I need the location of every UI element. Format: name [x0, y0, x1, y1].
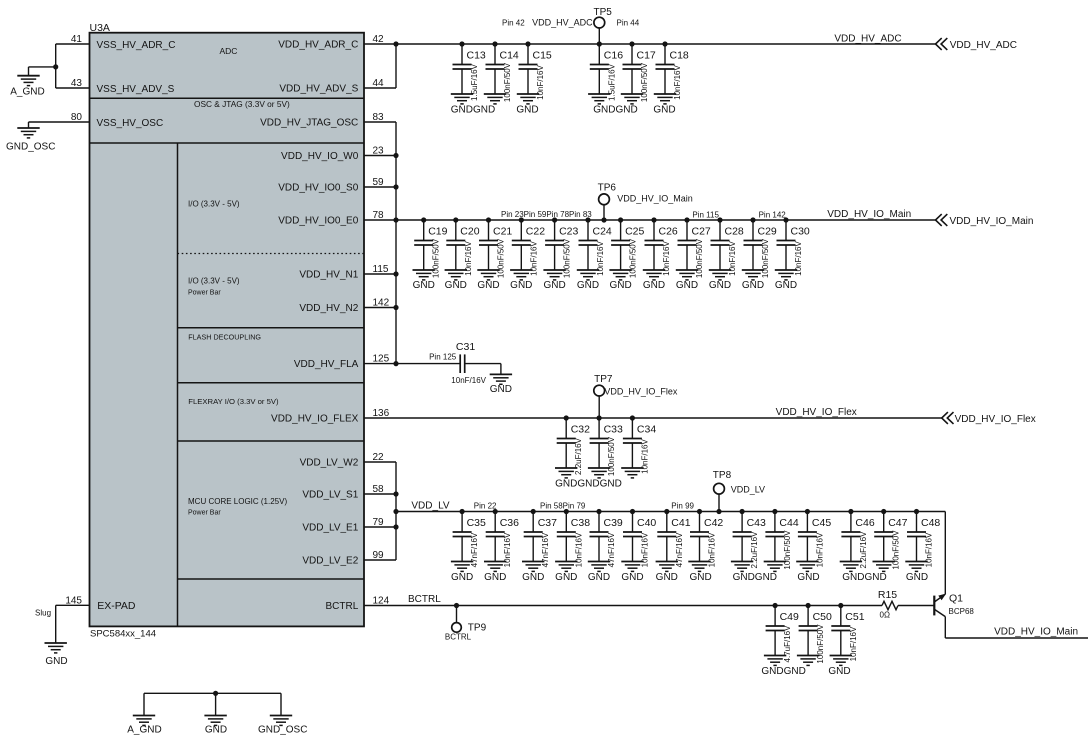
- svg-text:GND: GND: [828, 666, 850, 677]
- svg-text:U3A: U3A: [90, 22, 110, 34]
- capacitor C49: [764, 603, 799, 666]
- svg-text:100nF/50V: 100nF/50V: [761, 238, 770, 278]
- capacitor C26: [643, 217, 678, 280]
- svg-text:10nF/16V: 10nF/16V: [925, 532, 934, 567]
- svg-text:C14: C14: [500, 50, 519, 62]
- capacitor C23: [543, 217, 578, 280]
- transistor Q1: [934, 593, 974, 617]
- svg-text:10nF/16V: 10nF/16V: [641, 532, 650, 567]
- svg-text:C50: C50: [813, 611, 832, 623]
- svg-text:GND: GND: [205, 725, 227, 736]
- svg-text:GND: GND: [643, 280, 665, 291]
- svg-text:C46: C46: [855, 517, 874, 529]
- svg-text:A_GND: A_GND: [10, 86, 44, 97]
- svg-text:C23: C23: [559, 226, 578, 238]
- svg-text:VDD_HV_JTAG_OSC: VDD_HV_JTAG_OSC: [260, 118, 358, 129]
- node bus junctions: [393, 41, 398, 529]
- svg-text:10nF/16V: 10nF/16V: [815, 532, 824, 567]
- node terminal VDD_HV_ADC: [936, 38, 1017, 51]
- svg-text:GNDGND: GNDGND: [451, 105, 495, 116]
- svg-text:GND: GND: [45, 656, 67, 667]
- node TP5 label: [594, 7, 613, 18]
- node junction ground tie: [213, 691, 218, 696]
- capacitor C21: [477, 217, 512, 280]
- svg-text:Power Bar: Power Bar: [188, 510, 221, 517]
- ground GND_OSC (left): [6, 128, 55, 153]
- node pin 22 VDD_LV_W2: [300, 452, 384, 469]
- node net label VDD_HV_IO_Main: [827, 209, 911, 220]
- svg-text:VSS_HV_ADV_S: VSS_HV_ADV_S: [97, 84, 175, 95]
- node pin 136 VDD_HV_IO_FLEX: [271, 408, 390, 425]
- svg-text:GNDGND: GNDGND: [842, 572, 886, 583]
- node pin 23 VDD_HV_IO_W0: [281, 146, 384, 163]
- test point TP9: [452, 606, 462, 633]
- svg-text:Pin 58Pin 79: Pin 58Pin 79: [540, 502, 586, 511]
- svg-text:10nF/16V: 10nF/16V: [728, 240, 737, 275]
- svg-text:BCTRL: BCTRL: [326, 601, 359, 612]
- svg-text:VDD_HV_N2: VDD_HV_N2: [299, 303, 358, 314]
- svg-text:VDD_HV_IO_Main: VDD_HV_IO_Main: [827, 209, 911, 220]
- svg-text:GND: GND: [689, 572, 711, 583]
- svg-text:C25: C25: [625, 226, 644, 238]
- svg-text:C36: C36: [500, 517, 519, 529]
- wire net VDD_LV rail: [396, 511, 945, 513]
- svg-text:VSS_HV_ADR_C: VSS_HV_ADR_C: [97, 40, 176, 51]
- svg-text:C48: C48: [921, 517, 940, 529]
- node pin 44 VDD_HV_ADV_S: [279, 78, 384, 95]
- capacitor C33: [588, 415, 623, 478]
- svg-text:GND_OSC: GND_OSC: [6, 142, 55, 153]
- svg-text:I/O (3.3V - 5V): I/O (3.3V - 5V): [188, 276, 240, 285]
- svg-text:VDD_HV_IO_Main: VDD_HV_IO_Main: [950, 216, 1034, 227]
- svg-text:Pin 22: Pin 22: [474, 502, 497, 511]
- svg-text:VDD_LV: VDD_LV: [731, 485, 765, 495]
- wire Q1 collector to VDD_HV_IO_Main: [945, 617, 1088, 638]
- capacitor C42: [688, 509, 723, 572]
- svg-text:GND: GND: [906, 572, 928, 583]
- node pin 99 VDD_LV_E2: [302, 550, 384, 567]
- node pin ref Pin 44: [617, 19, 640, 28]
- node section label I/O 1: [188, 199, 240, 208]
- IC U3A SPC584xx_144 (MCU power block): [90, 33, 365, 627]
- wire A_GND branch: [29, 67, 56, 76]
- node GND labels bank2: [413, 280, 798, 291]
- svg-text:GND: GND: [775, 280, 797, 291]
- svg-text:10nF/16V: 10nF/16V: [464, 240, 473, 275]
- svg-text:VDD_LV_E2: VDD_LV_E2: [302, 556, 358, 567]
- svg-text:C51: C51: [845, 611, 864, 623]
- node pin 58 VDD_LV_S1: [302, 484, 384, 501]
- svg-text:C32: C32: [571, 424, 590, 436]
- svg-text:Pin 115: Pin 115: [692, 211, 719, 220]
- capacitor C16: [588, 41, 623, 104]
- wire pin 125 to C31: [364, 363, 460, 365]
- ground GND_OSC (bottom): [258, 716, 307, 736]
- svg-text:GNDGND: GNDGND: [593, 105, 637, 116]
- node net label VDD_HV_ADC: [834, 34, 901, 45]
- capacitor C38: [555, 509, 590, 572]
- svg-text:47nF/16V: 47nF/16V: [675, 532, 684, 567]
- svg-text:GND: GND: [577, 280, 599, 291]
- capacitor C13: [451, 41, 486, 104]
- svg-text:VDD_LV_W2: VDD_LV_W2: [300, 458, 359, 469]
- capacitor C34: [621, 415, 656, 478]
- node TP5 net label VDD_HV_ADC: [532, 18, 593, 28]
- wire ground tie A_GND/GND/GND_OSC: [144, 693, 281, 715]
- svg-text:C18: C18: [670, 50, 689, 62]
- node TP9 label: [445, 623, 487, 642]
- capacitor C20: [445, 217, 480, 280]
- svg-text:GND: GND: [555, 572, 577, 583]
- svg-text:VDD_HV_IO_Main: VDD_HV_IO_Main: [994, 627, 1078, 638]
- svg-text:GND: GND: [510, 280, 532, 291]
- node GND labels bank5: [761, 666, 850, 677]
- node Slug label: [35, 609, 51, 618]
- node TP7 label: [594, 374, 678, 397]
- wire C31 to GND: [465, 364, 501, 375]
- svg-text:GND: GND: [609, 280, 631, 291]
- node pin ref Pin 99: [671, 502, 694, 511]
- svg-text:VDD_HV_ADC: VDD_HV_ADC: [950, 40, 1017, 51]
- svg-text:47nF/16V: 47nF/16V: [470, 532, 479, 567]
- capacitor C29: [742, 217, 777, 280]
- wire pin 80 to GND_OSC: [29, 122, 90, 128]
- ground GND (bottom): [204, 716, 227, 736]
- svg-text:TP5: TP5: [594, 7, 613, 18]
- svg-text:VDD_HV_ADC: VDD_HV_ADC: [532, 18, 593, 28]
- capacitor C19: [413, 217, 448, 280]
- svg-text:SPC584xx_144: SPC584xx_144: [90, 629, 156, 640]
- node pin ref Pin 125: [429, 353, 457, 362]
- wire R15 to Q1 base: [898, 605, 934, 607]
- svg-text:A_GND: A_GND: [127, 725, 161, 736]
- svg-text:GNDGND: GNDGND: [733, 572, 777, 583]
- svg-text:10nF/16V: 10nF/16V: [849, 626, 858, 661]
- node net label VDD_HV_IO_Main (bottom): [994, 627, 1078, 638]
- svg-text:VDD_HV_ADC: VDD_HV_ADC: [834, 34, 901, 45]
- node pin ref Pin 42: [502, 19, 525, 28]
- node terminal VDD_HV_IO_Main: [936, 214, 1034, 227]
- node pin ref Pin 22: [474, 502, 497, 511]
- svg-text:I/O (3.3V - 5V): I/O (3.3V - 5V): [188, 199, 240, 208]
- svg-text:Pin 44: Pin 44: [617, 19, 640, 28]
- test point TP5: [594, 17, 605, 44]
- svg-text:VDD_HV_IO_Flex: VDD_HV_IO_Flex: [604, 387, 678, 397]
- svg-text:TP6: TP6: [598, 183, 617, 194]
- svg-text:100nF/50V: 100nF/50V: [563, 238, 572, 278]
- capacitor C27: [676, 217, 711, 280]
- svg-text:Power Bar: Power Bar: [188, 290, 221, 297]
- node GND labels bank3: [555, 479, 622, 490]
- wire pin 145 EX-PAD to GND: [56, 605, 90, 643]
- svg-text:VDD_HV_N1: VDD_HV_N1: [299, 270, 358, 281]
- svg-text:GND: GND: [445, 280, 467, 291]
- node pin 124 BCTRL: [326, 596, 390, 613]
- svg-text:ADC: ADC: [220, 46, 238, 56]
- capacitor C35: [451, 509, 486, 572]
- svg-text:100nF/50V: 100nF/50V: [432, 238, 441, 278]
- svg-text:Pin 99: Pin 99: [671, 502, 694, 511]
- svg-text:C43: C43: [747, 517, 766, 529]
- node terminal VDD_HV_IO_Flex: [942, 412, 1036, 425]
- svg-text:GND: GND: [543, 280, 565, 291]
- node TP8 label: [713, 470, 765, 495]
- svg-text:47nF/16V: 47nF/16V: [607, 532, 616, 567]
- node pin 43 VSS_HV_ADV_S: [71, 78, 175, 95]
- svg-text:Pin 23Pin 59Pin 78Pin 83: Pin 23Pin 59Pin 78Pin 83: [501, 210, 592, 219]
- node section label FLEXRAY I/O: [188, 397, 279, 406]
- svg-text:R15: R15: [878, 589, 897, 601]
- svg-text:BCTRL: BCTRL: [445, 633, 472, 642]
- svg-text:C30: C30: [791, 226, 810, 238]
- node pin 78 VDD_HV_IO0_E0: [278, 210, 384, 227]
- svg-text:0Ω: 0Ω: [880, 610, 890, 619]
- svg-text:10nF/16V: 10nF/16V: [794, 240, 803, 275]
- svg-text:10nF/16V: 10nF/16V: [640, 438, 649, 473]
- node pin 115 VDD_HV_N1: [299, 264, 389, 281]
- capacitor C41: [656, 509, 691, 572]
- node SPC584xx_144 part label: [90, 629, 156, 640]
- svg-text:10nF/16V: 10nF/16V: [596, 240, 605, 275]
- svg-text:C13: C13: [467, 50, 486, 62]
- node junction TP9: [454, 603, 459, 608]
- node pin 145 EX-PAD: [65, 595, 82, 606]
- svg-text:C41: C41: [671, 517, 690, 529]
- svg-text:GND: GND: [522, 572, 544, 583]
- svg-text:GNDGND: GNDGND: [761, 666, 805, 677]
- svg-text:Q1: Q1: [949, 593, 963, 605]
- svg-text:10nF/16V: 10nF/16V: [574, 532, 583, 567]
- capacitor C30: [775, 217, 810, 280]
- wire bus HV pins 83-125: [395, 122, 397, 364]
- svg-text:VDD_HV_FLA: VDD_HV_FLA: [294, 359, 359, 370]
- node pin 125 VDD_HV_FLA: [294, 354, 390, 371]
- node pin 79 VDD_LV_E1: [302, 517, 384, 534]
- node pin 142 VDD_HV_N2: [299, 298, 389, 315]
- capacitor C39: [588, 509, 623, 572]
- capacitor C43: [731, 509, 766, 572]
- svg-text:Pin 142: Pin 142: [759, 211, 787, 220]
- svg-text:Pin 125: Pin 125: [429, 353, 457, 362]
- svg-text:VDD_LV: VDD_LV: [411, 501, 449, 512]
- svg-text:GND: GND: [656, 572, 678, 583]
- svg-text:C21: C21: [493, 226, 512, 238]
- capacitor C28: [709, 217, 744, 280]
- svg-text:EX-PAD: EX-PAD: [97, 600, 136, 612]
- node net label VDD_LV: [411, 501, 449, 512]
- svg-text:GND: GND: [653, 105, 675, 116]
- node junction A_GND branch: [53, 64, 58, 69]
- svg-text:C44: C44: [779, 517, 798, 529]
- node pin refs Pin 58 Pin 79: [540, 502, 586, 511]
- capacitor C44: [764, 509, 799, 572]
- node pin ref Pin 142: [759, 211, 787, 220]
- svg-text:1.5uF/16V: 1.5uF/16V: [607, 63, 616, 101]
- svg-text:GND: GND: [676, 280, 698, 291]
- svg-text:VDD_LV_S1: VDD_LV_S1: [302, 490, 358, 501]
- svg-text:GND: GND: [797, 572, 819, 583]
- capacitor C51: [830, 603, 865, 666]
- node section label OSC & JTAG: [194, 99, 290, 109]
- svg-text:4.7uF/16V: 4.7uF/16V: [783, 625, 792, 663]
- wire bus LV pins 22-99: [395, 462, 397, 560]
- svg-text:MCU CORE LOGIC (1.25V): MCU CORE LOGIC (1.25V): [188, 497, 287, 506]
- svg-text:10nF/16V: 10nF/16V: [662, 240, 671, 275]
- svg-text:BCTRL: BCTRL: [408, 594, 441, 605]
- wire bus ADC pins 42-44: [395, 44, 397, 88]
- svg-text:C40: C40: [637, 517, 656, 529]
- svg-text:10nF/16V: 10nF/16V: [529, 240, 538, 275]
- test point TP7: [594, 385, 605, 418]
- svg-text:GND: GND: [709, 280, 731, 291]
- svg-text:C47: C47: [888, 517, 907, 529]
- svg-text:TP8: TP8: [713, 470, 732, 481]
- wire pin 41 to A_GND junction: [56, 44, 90, 88]
- node section label FLASH DECOUPLING: [188, 333, 261, 342]
- svg-text:C38: C38: [571, 517, 590, 529]
- svg-text:C27: C27: [692, 226, 711, 238]
- svg-text:C28: C28: [725, 226, 744, 238]
- capacitor C46: [840, 509, 875, 572]
- svg-text:FLEXRAY I/O (3.3V or 5V): FLEXRAY I/O (3.3V or 5V): [188, 397, 279, 406]
- svg-text:C29: C29: [758, 226, 777, 238]
- node section label I/O 2 Power Bar: [188, 276, 240, 296]
- svg-text:GND: GND: [477, 280, 499, 291]
- capacitor C31: [451, 341, 486, 385]
- svg-text:GND: GND: [588, 572, 610, 583]
- svg-text:C49: C49: [780, 611, 799, 623]
- ground A_GND (top left): [10, 76, 44, 98]
- svg-text:C22: C22: [526, 226, 545, 238]
- capacitor C50: [797, 603, 832, 666]
- node section label MCU CORE LOGIC: [188, 497, 287, 517]
- svg-text:Pin 42: Pin 42: [502, 19, 525, 28]
- svg-text:FLASH DECOUPLING: FLASH DECOUPLING: [188, 333, 261, 342]
- ground A_GND (bottom): [127, 716, 161, 736]
- svg-text:10nF/16V: 10nF/16V: [708, 532, 717, 567]
- capacitor C14: [484, 41, 519, 104]
- capacitor C48: [905, 509, 940, 572]
- svg-text:100nF/50V: 100nF/50V: [892, 530, 901, 570]
- capacitor C45: [796, 509, 831, 572]
- capacitor C47: [873, 509, 908, 572]
- node pin 42 VDD_HV_ADR_C: [278, 34, 384, 51]
- node net label BCTRL: [408, 594, 441, 605]
- node U3A refdes label: [90, 22, 110, 34]
- node GND labels bank4: [451, 572, 928, 583]
- svg-text:GNDGNDGND: GNDGNDGND: [555, 479, 622, 490]
- ground GND (slug): [45, 643, 68, 667]
- capacitor C18: [654, 41, 689, 104]
- svg-text:VDD_HV_IO0_S0: VDD_HV_IO0_S0: [278, 183, 358, 194]
- svg-text:BCP68: BCP68: [949, 607, 975, 616]
- svg-text:VDD_HV_IO_Flex: VDD_HV_IO_Flex: [955, 414, 1036, 425]
- svg-text:C37: C37: [538, 517, 557, 529]
- capacitor C25: [609, 217, 644, 280]
- svg-text:100nF/50V: 100nF/50V: [783, 530, 792, 570]
- svg-text:Slug: Slug: [35, 609, 51, 618]
- svg-text:C20: C20: [460, 226, 479, 238]
- capacitor C24: [577, 217, 612, 280]
- svg-text:VDD_HV_ADV_S: VDD_HV_ADV_S: [279, 84, 358, 95]
- svg-text:10nF/16V: 10nF/16V: [451, 376, 486, 385]
- resistor R15: [878, 589, 898, 619]
- svg-text:GND: GND: [516, 105, 538, 116]
- node section label ADC: [220, 46, 238, 56]
- svg-text:C39: C39: [604, 517, 623, 529]
- svg-text:TP7: TP7: [594, 374, 613, 385]
- node pin 83 VDD_HV_JTAG_OSC: [260, 112, 384, 129]
- svg-text:2.2uF/16V: 2.2uF/16V: [750, 531, 759, 569]
- svg-text:10nF/16V: 10nF/16V: [536, 64, 545, 99]
- svg-text:VDD_LV_E1: VDD_LV_E1: [302, 523, 358, 534]
- svg-text:100nF/50V: 100nF/50V: [640, 62, 649, 102]
- node pin 41 VSS_HV_ADR_C: [71, 34, 176, 51]
- svg-text:VDD_HV_IO0_E0: VDD_HV_IO0_E0: [278, 216, 358, 227]
- svg-text:100nF/50V: 100nF/50V: [497, 238, 506, 278]
- ground GND (C31): [490, 374, 512, 395]
- svg-text:VDD_HV_ADR_C: VDD_HV_ADR_C: [278, 40, 358, 51]
- node pin refs Pin 23 Pin 59 Pin 78 Pin 83: [501, 210, 592, 219]
- svg-text:10nF/16V: 10nF/16V: [673, 64, 682, 99]
- svg-text:100nF/50V: 100nF/50V: [816, 624, 825, 664]
- svg-text:2.2uF/16V: 2.2uF/16V: [574, 437, 583, 475]
- svg-text:VDD_HV_IO_Flex: VDD_HV_IO_Flex: [776, 407, 857, 418]
- svg-text:GND: GND: [484, 572, 506, 583]
- node pin ref Pin 115: [692, 211, 719, 220]
- svg-text:C24: C24: [593, 226, 612, 238]
- svg-text:C34: C34: [637, 424, 656, 436]
- svg-text:GND: GND: [490, 384, 512, 395]
- capacitor C32: [555, 415, 590, 478]
- capacitor C22: [510, 217, 545, 280]
- test point TP6: [599, 194, 610, 223]
- svg-text:C15: C15: [533, 50, 552, 62]
- svg-text:VSS_HV_OSC: VSS_HV_OSC: [97, 118, 164, 129]
- svg-text:VDD_HV_IO_Main: VDD_HV_IO_Main: [617, 194, 693, 204]
- svg-text:C33: C33: [604, 424, 623, 436]
- svg-text:C16: C16: [604, 50, 623, 62]
- wire Q1 emitter to VDD_LV rail: [944, 512, 946, 595]
- svg-text:2.2uF/16V: 2.2uF/16V: [859, 531, 868, 569]
- svg-text:C42: C42: [704, 517, 723, 529]
- svg-text:47nF/16V: 47nF/16V: [541, 532, 550, 567]
- svg-text:C19: C19: [428, 226, 447, 238]
- svg-text:C17: C17: [637, 50, 656, 62]
- svg-text:100nF/50V: 100nF/50V: [503, 62, 512, 102]
- svg-text:VDD_HV_IO_W0: VDD_HV_IO_W0: [281, 151, 359, 162]
- node TP6 label: [598, 183, 693, 204]
- node pin 80 VSS_HV_OSC: [71, 112, 163, 129]
- svg-text:GND: GND: [413, 280, 435, 291]
- svg-text:GND_OSC: GND_OSC: [258, 725, 307, 736]
- node section label EX-PAD: [97, 600, 136, 612]
- svg-text:100nF/50V: 100nF/50V: [607, 436, 616, 476]
- capacitor C40: [621, 509, 656, 572]
- svg-text:10nF/16V: 10nF/16V: [503, 532, 512, 567]
- node pin 59 VDD_HV_IO0_S0: [278, 177, 384, 194]
- svg-text:C35: C35: [467, 517, 486, 529]
- svg-text:OSC & JTAG (3.3V or 5V): OSC & JTAG (3.3V or 5V): [194, 99, 290, 109]
- node GND labels bank1: [451, 105, 676, 116]
- test point TP8: [714, 483, 725, 514]
- svg-text:VDD_HV_IO_FLEX: VDD_HV_IO_FLEX: [271, 414, 359, 425]
- capacitor C37: [522, 509, 557, 572]
- capacitor C15: [517, 41, 552, 104]
- wire net BCTRL: [364, 605, 882, 607]
- capacitor C36: [484, 509, 519, 572]
- wire net VDD_HV_IO_Main rail: [364, 219, 936, 221]
